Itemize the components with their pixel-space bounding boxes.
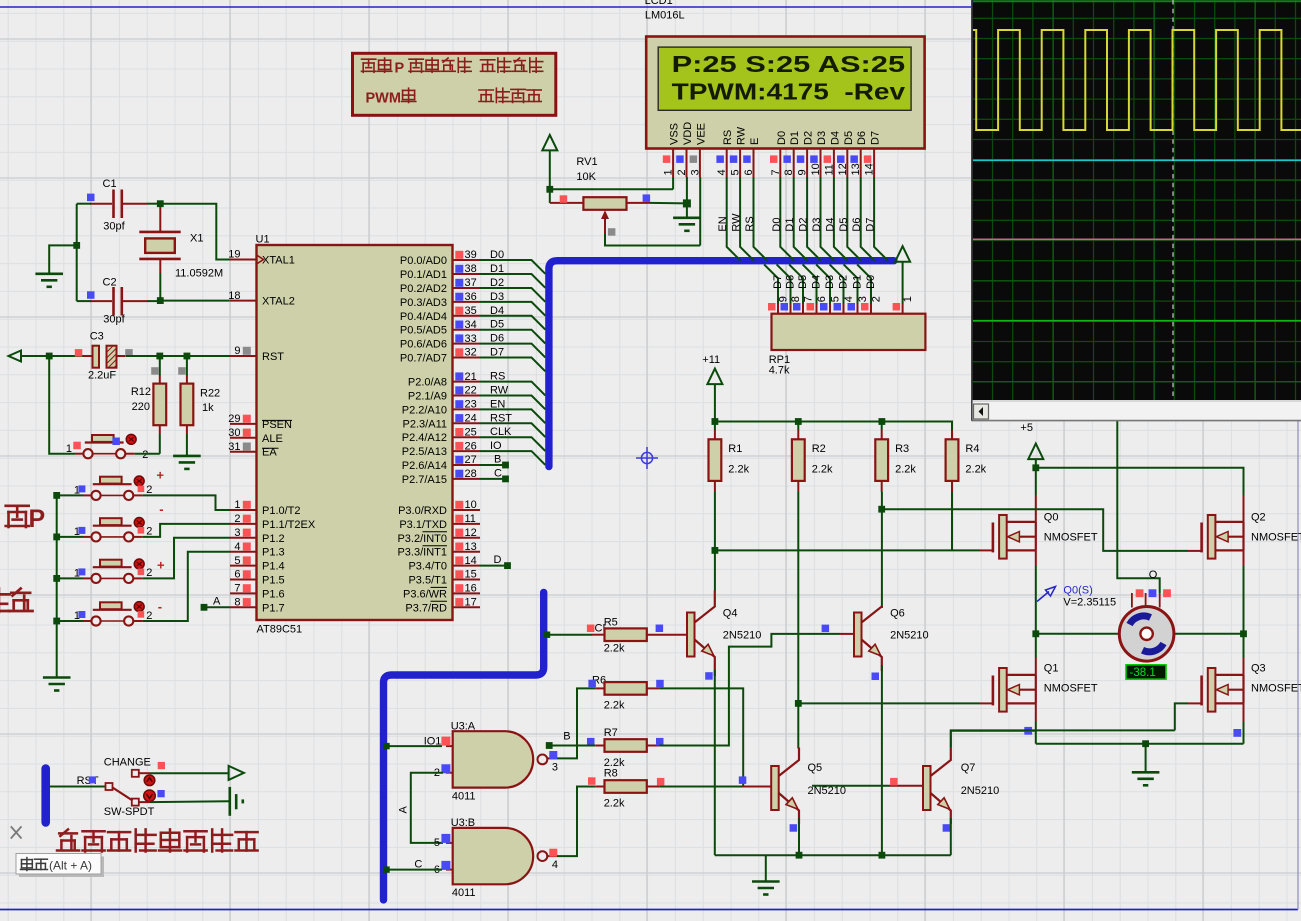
transistor Q7 2N5210 [923, 766, 931, 810]
svg-text:D6: D6 [785, 275, 797, 289]
svg-text:4: 4 [843, 296, 855, 302]
svg-text:2.2k: 2.2k [965, 464, 986, 476]
svg-text:Q2: Q2 [1251, 512, 1266, 524]
svg-text:6: 6 [234, 569, 240, 581]
svg-text:4: 4 [716, 169, 728, 175]
pin 13 P3.3/INT1 [453, 551, 481, 553]
svg-text:VEE: VEE [695, 123, 707, 145]
svg-text:5: 5 [434, 837, 440, 849]
svg-text:P3.4/T0: P3.4/T0 [408, 561, 447, 573]
wire net RS to bus [480, 382, 545, 396]
svg-text:RST: RST [490, 412, 512, 424]
scope trace channel B (cyan) [973, 159, 1301, 161]
wire net D [480, 565, 506, 567]
wire lcd pin9 to bus [807, 177, 821, 261]
wire R7 to Q6 base [659, 634, 840, 746]
svg-text:11: 11 [823, 164, 835, 175]
voltage display -38.1 [1126, 665, 1166, 679]
wire R1 bottom / Q4 collector [714, 492, 716, 591]
svg-text:4.7k: 4.7k [769, 365, 790, 377]
svg-text:LCD1: LCD1 [645, 0, 673, 7]
wire lcd pin5 to bus [740, 177, 754, 261]
svg-text:NMOSFET: NMOSFET [1044, 532, 1098, 544]
svg-text:D1: D1 [490, 263, 504, 275]
wire C2 right [147, 300, 160, 302]
pin 38 P0.1/AD1 [453, 273, 481, 275]
respack pin 5 from bus [816, 264, 830, 304]
svg-text:2.2uF: 2.2uF [88, 370, 116, 382]
svg-text:2.2k: 2.2k [604, 643, 625, 655]
wire lcd pin13 to bus [861, 177, 875, 261]
svg-text:P3.6/WR: P3.6/WR [403, 588, 447, 600]
svg-text:R3: R3 [895, 443, 909, 455]
node caps-gnd junction [73, 242, 80, 249]
pin 21 P2.0/A8 [453, 381, 481, 383]
svg-text:R12: R12 [131, 386, 151, 398]
pin 3 P1.2 [230, 537, 257, 539]
wire R6 to Q5 base [659, 688, 743, 786]
svg-text:R2: R2 [812, 443, 826, 455]
svg-text:+5: +5 [1020, 422, 1033, 434]
push button B4 [91, 574, 133, 583]
svg-text:-38.1: -38.1 [1130, 667, 1156, 679]
svg-text:30: 30 [228, 427, 240, 439]
wire lcd VDD [686, 177, 688, 203]
pin 18 XTAL2 [230, 300, 257, 302]
scope window bottom edge [972, 420, 1301, 422]
svg-text:30pf: 30pf [103, 220, 125, 232]
wire U3:A out to R6 [557, 688, 595, 758]
wire net D0 to bus [480, 260, 545, 274]
svg-text:V=2.35115: V=2.35115 [1063, 597, 1116, 609]
wire to ground [49, 245, 76, 272]
svg-text:R5: R5 [604, 616, 618, 628]
wire B1 to R12 [135, 453, 160, 455]
svg-text:RS: RS [490, 371, 505, 383]
svg-text:A: A [398, 806, 410, 814]
svg-text:1k: 1k [202, 402, 214, 414]
svg-text:8: 8 [234, 597, 240, 609]
close X mark [11, 826, 22, 838]
svg-text:R8: R8 [604, 768, 618, 780]
wire lcd pin6 to bus [754, 177, 768, 261]
pin 33 P0.6/AD6 [453, 343, 481, 345]
wire net C [480, 478, 504, 480]
probe annotation Q0(S) [1037, 587, 1056, 602]
tooltip 截图(Alt+A) [19, 857, 104, 878]
nand U3:B output pin4 [547, 855, 557, 857]
wire net D7 to bus [480, 358, 545, 372]
svg-text:9: 9 [234, 345, 240, 357]
svg-text:P1.3: P1.3 [262, 547, 285, 559]
wire net RST to bus [480, 423, 545, 437]
label 调节P (left) [6, 506, 29, 527]
svg-text:PWM: PWM [366, 91, 401, 107]
svg-text:P1.2: P1.2 [262, 533, 285, 545]
wire RST arrow to B1 [49, 356, 75, 454]
svg-text:P3.3/INT1: P3.3/INT1 [397, 547, 447, 559]
svg-text:P0.4/AD4: P0.4/AD4 [400, 311, 447, 323]
wire C1 left [77, 203, 91, 205]
svg-text:Q7: Q7 [961, 762, 976, 774]
node X1 bottom junction [157, 297, 164, 304]
svg-text:34: 34 [465, 319, 477, 331]
pin 36 P0.3/AD3 [453, 301, 481, 303]
svg-text:2N5210: 2N5210 [723, 630, 762, 642]
svg-text:C1: C1 [103, 178, 117, 190]
wire R2 bottom / Q5 collector [797, 492, 799, 749]
pin 37 P0.2/AD2 [453, 287, 481, 289]
respack pin 8 from bus [777, 264, 791, 304]
wire B4 left [57, 577, 83, 579]
svg-text:8: 8 [790, 296, 802, 302]
transistor Q6 2N5210 [854, 613, 862, 657]
svg-text:XTAL2: XTAL2 [262, 296, 295, 308]
pin 15 P3.5/T1 [453, 579, 481, 581]
svg-text:10: 10 [465, 499, 477, 511]
pin 14 P3.4/T0 [453, 565, 481, 567]
svg-text:C2: C2 [103, 277, 117, 289]
wire emitter rail [715, 854, 951, 856]
label 选择电机转动方向 [57, 829, 79, 850]
nand U3:B pin5 [446, 842, 453, 844]
resistor R8 body [605, 780, 647, 793]
svg-text:13: 13 [850, 163, 862, 175]
svg-text:37: 37 [465, 277, 477, 289]
svg-text:D4: D4 [824, 218, 836, 232]
svg-text:Q3: Q3 [1251, 663, 1266, 675]
ground R22 [173, 456, 201, 469]
svg-text:XTAL1: XTAL1 [262, 255, 295, 267]
svg-text:+: + [156, 468, 164, 483]
pin 31 EA [230, 451, 257, 453]
wire bus to R5 (CLK) [547, 634, 593, 636]
wire switch throw2 [139, 801, 150, 803]
svg-text:D3: D3 [824, 275, 836, 289]
bus stub bottom-left [41, 769, 50, 823]
svg-text:RST: RST [262, 351, 284, 363]
respack pin 2 from bus [857, 264, 871, 304]
power terminal RP1 pin1 [895, 246, 910, 262]
svg-text:2.2k: 2.2k [812, 464, 833, 476]
svg-text:18: 18 [228, 290, 240, 302]
pin 27 P2.6/A14 [453, 464, 481, 466]
wire net D5 to bus [480, 330, 545, 344]
wire to LCD VSS [550, 188, 673, 190]
wire motor top terminal from scope [1117, 421, 1159, 594]
wire net EN to bus [480, 409, 545, 423]
node R12 top [156, 353, 163, 360]
wire hbridge bottom rail [1036, 743, 1244, 745]
svg-text:1: 1 [234, 499, 240, 511]
svg-text:2.2k: 2.2k [604, 798, 625, 810]
svg-text:Q4: Q4 [723, 608, 738, 620]
wire Q1 drain [1035, 634, 1037, 658]
svg-text:28: 28 [465, 468, 477, 480]
svg-text:P2.7/A15: P2.7/A15 [402, 474, 447, 486]
sheet border bottom [0, 909, 1298, 911]
wire net D4 to bus [480, 316, 545, 330]
wire net D2 to bus [480, 288, 545, 302]
svg-text:AT89C51: AT89C51 [257, 624, 303, 636]
svg-text:7: 7 [234, 583, 240, 595]
output terminal arrow [229, 766, 244, 780]
svg-text:R22: R22 [200, 387, 220, 399]
scope trace channel D (green) [973, 320, 1301, 322]
svg-text:2.2k: 2.2k [895, 464, 916, 476]
pin 28 P2.7/A15 [453, 478, 481, 480]
wire RST row [21, 355, 90, 357]
pin 23 P2.2/A10 [453, 408, 481, 410]
wire net D6 to bus [480, 344, 545, 358]
motor [1119, 607, 1174, 662]
node Q1 gate junction [795, 700, 802, 707]
wire net IO to bus [480, 451, 545, 465]
svg-text:RV1: RV1 [576, 156, 597, 168]
respack pin 9 from bus [764, 264, 778, 304]
pin 22 P2.1/A9 [453, 395, 481, 397]
mosfet Q3 NMOSFET [1200, 676, 1203, 706]
ground H-bridge [1132, 772, 1160, 785]
svg-text:E: E [749, 138, 761, 145]
svg-text:EN: EN [490, 398, 505, 410]
svg-text:25: 25 [465, 426, 477, 438]
svg-text:5: 5 [730, 169, 742, 175]
push button B1 (reset) [83, 449, 125, 458]
lcd screen [658, 47, 911, 110]
wire +5 rail [1035, 459, 1037, 468]
mosfet Q2 NMOSFET [1200, 523, 1203, 553]
wire rail to ground [1145, 744, 1147, 772]
wire Q1 gate row [980, 702, 993, 704]
wire B4 to pin P1.2 [143, 538, 230, 579]
svg-text:P0.0/AD0: P0.0/AD0 [400, 255, 447, 267]
legend text line1 [362, 59, 376, 72]
annotation box legend [353, 53, 556, 115]
svg-text:RW: RW [731, 213, 743, 232]
svg-text:30pf: 30pf [103, 314, 125, 326]
svg-text:RW: RW [490, 385, 509, 397]
mosfet Q1 NMOSFET [992, 676, 995, 706]
switch SW1 SW-SPDT [106, 770, 139, 806]
svg-text:(Alt + A): (Alt + A) [49, 859, 92, 873]
wire bus to U3:B pin6 [386, 869, 442, 871]
resistor R3 [881, 422, 883, 431]
lcd LCD1 LM016L body [646, 37, 924, 149]
sheet border right [1297, 7, 1299, 910]
pin 8 P1.7 [230, 606, 257, 608]
svg-text:TPWM:4175 -Rev: TPWM:4175 -Rev [672, 79, 906, 105]
svg-text:29: 29 [228, 413, 240, 425]
svg-text:2N5210: 2N5210 [890, 630, 929, 642]
svg-text:10: 10 [810, 163, 822, 175]
svg-text:LM016L: LM016L [645, 10, 685, 22]
wire Q0 gate row [715, 549, 980, 551]
wire lcd pin11 to bus [834, 177, 848, 261]
wire R22 to ground [186, 434, 188, 455]
wire R4 bottom [951, 492, 953, 550]
svg-text:2.2k: 2.2k [604, 700, 625, 712]
pin 1 P1.0/T2 [230, 509, 257, 511]
wire U3:B out to R8 [557, 787, 595, 857]
wire lcd pin14 to bus [874, 177, 888, 261]
nand U3:A pin1 (IO) [446, 745, 453, 747]
svg-text:+: + [157, 558, 165, 573]
svg-text:23: 23 [465, 399, 477, 411]
switch actuator down [144, 790, 156, 802]
svg-text:D6: D6 [856, 131, 868, 145]
svg-text:P2.4/A12: P2.4/A12 [402, 432, 447, 444]
svg-text:3: 3 [689, 169, 701, 175]
resistor R5 body [605, 628, 647, 641]
wire net D1 to bus [480, 274, 545, 288]
wire X1 bottom [159, 273, 161, 301]
pin 9 RST [230, 355, 257, 357]
svg-text:P2.3/A11: P2.3/A11 [403, 418, 447, 430]
pin 35 P0.4/AD4 [453, 315, 481, 317]
wire B2 left [57, 494, 83, 496]
svg-text:P0.1/AD1: P0.1/AD1 [400, 269, 447, 281]
svg-text:4011: 4011 [452, 791, 476, 803]
svg-text:P:25 S:25 AS:25: P:25 S:25 AS:25 [672, 51, 906, 77]
svg-text:31: 31 [228, 441, 240, 453]
wire Q1 source [1035, 703, 1037, 722]
wire wiper to VEE [605, 233, 700, 246]
svg-text:220: 220 [132, 401, 150, 413]
svg-text:D6: D6 [490, 333, 504, 345]
scope top edge line [973, 0, 1301, 2]
wire B2 to pin P1.0 [143, 495, 230, 510]
svg-text:3: 3 [857, 296, 869, 302]
svg-text:12: 12 [837, 163, 849, 175]
wire lcd pin4 to bus [727, 177, 741, 261]
mosfet Q0 NMOSFET [992, 523, 995, 553]
svg-text:P2.6/A14: P2.6/A14 [402, 460, 447, 472]
svg-text:NMOSFET: NMOSFET [1044, 683, 1098, 695]
svg-text:Q0(S): Q0(S) [1063, 585, 1092, 597]
wire XTAL1 [160, 204, 230, 260]
svg-text:P1.6: P1.6 [262, 588, 285, 600]
pin 12 P3.2/INT0 [453, 537, 481, 539]
wire lcd pin7 to bus [780, 177, 794, 261]
svg-text:B: B [563, 731, 570, 743]
svg-text:2N5210: 2N5210 [808, 785, 847, 797]
svg-text:11.0592M: 11.0592M [175, 267, 223, 279]
resistor R4 [951, 422, 953, 431]
wire R3 to Q2 gate [882, 509, 1188, 551]
svg-text:P1.7: P1.7 [262, 602, 285, 614]
svg-text:17: 17 [465, 597, 477, 609]
wire R12 bottom [159, 434, 161, 454]
bus lower (NAND area) [384, 592, 544, 900]
svg-text:D7: D7 [490, 347, 504, 359]
wire R3 bottom / Q6 collector [881, 492, 883, 608]
svg-text:D0: D0 [490, 249, 504, 261]
pin 29 PSEN [230, 423, 257, 425]
svg-text:6: 6 [816, 296, 828, 302]
wire C3 to RST pin [126, 355, 230, 357]
svg-text:3: 3 [552, 762, 558, 774]
wire lcd pin10 to bus [821, 177, 835, 261]
motor pins [1131, 593, 1133, 608]
svg-text:D6: D6 [851, 218, 863, 232]
wire motor left [1036, 633, 1119, 635]
wire Q2 source to motor rail [1243, 550, 1245, 566]
respack RP1 body [772, 314, 926, 350]
svg-text:P2.2/A10: P2.2/A10 [402, 404, 447, 416]
svg-text:D5: D5 [838, 218, 850, 232]
wire net A (pin8) [204, 606, 230, 608]
svg-text:U3:B: U3:B [451, 817, 475, 829]
svg-text:D3: D3 [816, 131, 828, 145]
pin 39 P0.0/AD0 [453, 259, 481, 261]
svg-text:CHANGE: CHANGE [104, 757, 151, 769]
resistor R6 body [605, 682, 647, 695]
svg-text:D2: D2 [798, 218, 810, 232]
svg-text:1: 1 [663, 169, 675, 175]
nand U3:A output pin3 [547, 757, 557, 759]
oscilloscope window [972, 0, 1301, 421]
resistor R22 body [181, 384, 194, 426]
wire Q7 base row [812, 785, 890, 787]
respack pin 7 from bus [789, 264, 803, 304]
svg-text:CLK: CLK [490, 426, 512, 438]
node R22 top [184, 353, 191, 360]
wire RV1 top [549, 150, 551, 203]
svg-text:P3.2/INT0: P3.2/INT0 [397, 533, 447, 545]
wire Q5 emitter down [798, 818, 800, 855]
svg-text:Q5: Q5 [808, 762, 823, 774]
pin 34 P0.5/AD5 [453, 329, 481, 331]
wire B3 left [57, 536, 83, 538]
svg-text:D7: D7 [870, 131, 882, 145]
svg-text:21: 21 [465, 371, 477, 383]
svg-text:26: 26 [465, 440, 477, 452]
wire Q3 source [1243, 703, 1245, 722]
wire Q3 drain [1243, 634, 1245, 658]
svg-text:9: 9 [778, 296, 790, 302]
svg-text:D5: D5 [490, 319, 504, 331]
ground crystal [35, 274, 63, 287]
wire Q6 emitter down [881, 665, 883, 855]
pin 26 P2.5/A13 [453, 450, 481, 452]
node RST-b1 junction [46, 353, 53, 360]
scope trace channel C (pink) [973, 238, 1301, 240]
wire B5 to pin P1.3 [143, 552, 230, 621]
svg-text:D0: D0 [865, 275, 877, 289]
svg-text:O: O [1149, 569, 1158, 581]
svg-text:5: 5 [234, 555, 240, 567]
svg-text:35: 35 [465, 305, 477, 317]
pin 30 ALE [230, 437, 257, 439]
scope scrollbar [972, 400, 1301, 402]
svg-text:RS: RS [744, 216, 756, 231]
svg-text:RS: RS [722, 130, 734, 145]
ground rotated [230, 787, 243, 816]
resistor R12 body [153, 384, 166, 426]
resistor R1 [714, 422, 716, 431]
bus main (MCU to LCD/RP1) [549, 261, 894, 467]
svg-text:X1: X1 [190, 233, 203, 245]
wire Q7 collector to Q3 gate row [951, 730, 1175, 747]
wire net A pin2-pin5 [411, 773, 443, 843]
wire +11 stem [714, 384, 716, 421]
svg-text:D5: D5 [843, 131, 855, 145]
RV1 wiper [601, 210, 609, 219]
wire switch throw1 [139, 772, 150, 774]
svg-text:SW-SPDT: SW-SPDT [104, 806, 155, 818]
svg-text:9: 9 [797, 169, 809, 175]
